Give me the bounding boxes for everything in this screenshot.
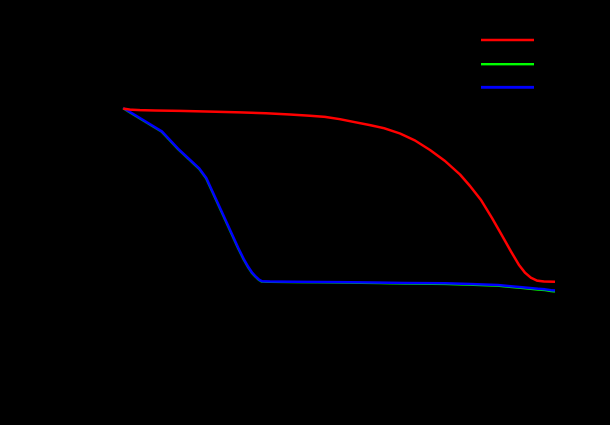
legend sample line red <box>481 39 534 41</box>
red curve <box>123 109 555 282</box>
blue curve <box>123 108 555 291</box>
green curve (mostly hidden under blue curve) <box>123 108 555 291</box>
legend sample line green <box>481 63 534 65</box>
legend sample line blue <box>481 86 534 89</box>
